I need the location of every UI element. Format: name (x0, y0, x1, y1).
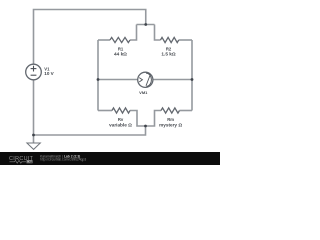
svg-text:Rv: Rv (118, 117, 124, 122)
svg-text:http://circuitlab.com/c/8vs24q: http://circuitlab.com/c/8vs24qp3 (40, 158, 86, 162)
svg-text:LAB: LAB (27, 160, 33, 164)
svg-text:1.5 kΩ: 1.5 kΩ (161, 52, 175, 57)
svg-text:mystery Ω: mystery Ω (159, 122, 182, 127)
svg-text:Rm: Rm (167, 117, 174, 122)
svg-text:variable Ω: variable Ω (109, 122, 132, 127)
svg-text:10 V: 10 V (44, 71, 54, 76)
svg-text:44 kΩ: 44 kΩ (114, 52, 127, 57)
svg-text:VM1: VM1 (139, 90, 148, 95)
